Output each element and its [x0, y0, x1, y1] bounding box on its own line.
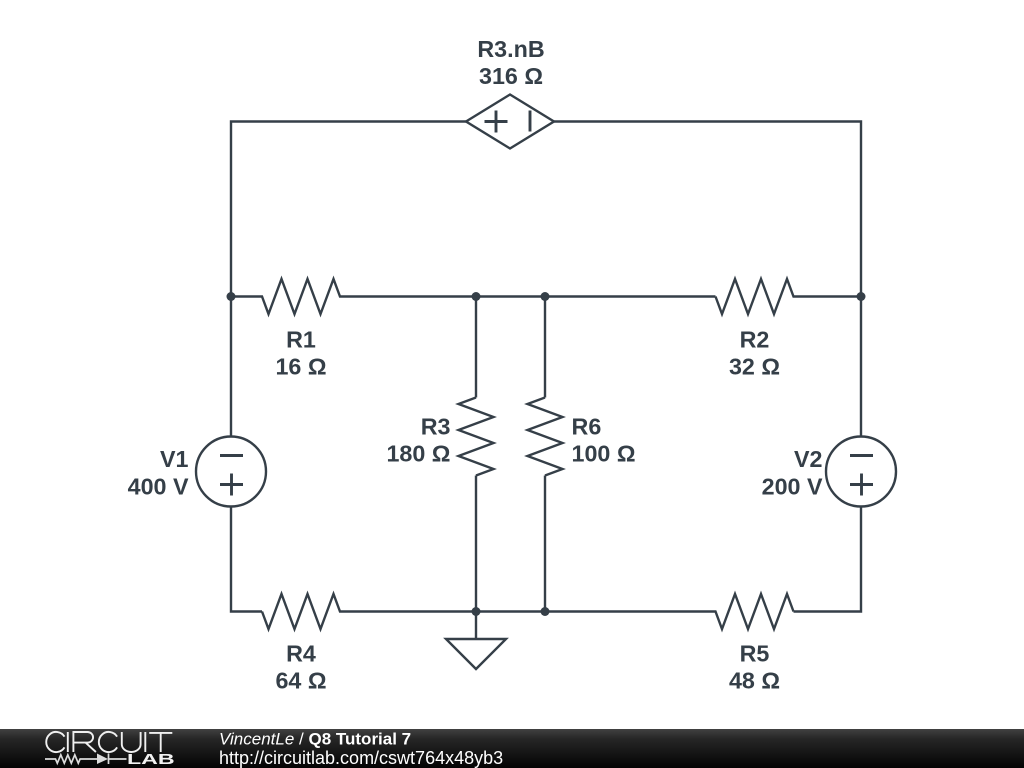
wire right rail from mid node down to V2 top	[860, 297, 862, 437]
voltage source V2	[826, 437, 896, 507]
wire from mid node down to R6	[544, 297, 546, 398]
svg-text:V2: V2	[794, 446, 823, 472]
resistor R6 vertical zigzag	[528, 398, 563, 476]
wire mid rail between center nodes and R2	[476, 295, 716, 297]
svg-text:R1: R1	[286, 327, 316, 353]
svg-text:R4: R4	[286, 641, 316, 667]
ground symbol	[446, 612, 506, 670]
node F bottom junction at R6	[541, 607, 550, 616]
node C mid junction at R6	[541, 292, 550, 301]
wire from R6 bottom to bottom node	[544, 476, 546, 612]
resistor R1 zigzag	[231, 279, 476, 314]
svg-text:16 Ω: 16 Ω	[275, 354, 326, 380]
wire left rail from mid node down to V1 top	[230, 297, 232, 437]
node E bottom junction at R3/ground	[472, 607, 481, 616]
svg-text:100 Ω: 100 Ω	[572, 441, 636, 467]
svg-text:R3.nB: R3.nB	[477, 36, 544, 62]
svg-text:R2: R2	[740, 327, 770, 353]
wire from mid node down to R3	[475, 297, 477, 398]
svg-text:R3: R3	[421, 414, 451, 440]
dependent source B1 diamond body	[466, 95, 554, 149]
footer watermark bar	[0, 729, 1024, 768]
svg-text:180 Ω: 180 Ω	[386, 441, 450, 467]
svg-text:VincentLe / Q8 Tutorial 7: VincentLe / Q8 Tutorial 7	[219, 730, 411, 749]
CircuitLab logo wordmark CIRCUIT	[46, 732, 172, 752]
svg-text:32 Ω: 32 Ω	[729, 354, 780, 380]
node B mid junction at R3	[472, 292, 481, 301]
wire from R3 bottom to bottom node	[475, 476, 477, 612]
svg-text:316 Ω: 316 Ω	[479, 63, 543, 89]
wire top rail from left corner to diamond left terminal	[231, 122, 466, 297]
resistor R3 vertical zigzag	[459, 398, 494, 476]
resistor R2 zigzag	[716, 279, 862, 314]
svg-text:64 Ω: 64 Ω	[275, 668, 326, 694]
wire right rail from V2 bottom to bottom-right corner	[794, 507, 862, 612]
svg-text:R5: R5	[740, 641, 770, 667]
svg-text:48 Ω: 48 Ω	[729, 668, 780, 694]
svg-text:400 V: 400 V	[128, 474, 189, 500]
svg-text:http://circuitlab.com/cswt764x: http://circuitlab.com/cswt764x48yb3	[219, 748, 503, 768]
resistor R4 zigzag	[262, 594, 476, 629]
wire left rail from V1 bottom to bottom-left corner	[231, 507, 262, 612]
CircuitLab logo resistor-diode wire	[45, 754, 127, 765]
wire top rail from diamond right terminal to right corner	[554, 122, 861, 297]
svg-text:R6: R6	[572, 414, 602, 440]
svg-text:200 V: 200 V	[762, 474, 823, 500]
wire bottom rail between nodes	[476, 610, 545, 612]
node A mid-left junction	[227, 292, 236, 301]
voltage source V1	[196, 437, 266, 507]
resistor R5 zigzag	[545, 594, 794, 629]
svg-text:LAB: LAB	[127, 751, 175, 767]
node D mid-right junction	[857, 292, 866, 301]
svg-text:V1: V1	[160, 446, 189, 472]
